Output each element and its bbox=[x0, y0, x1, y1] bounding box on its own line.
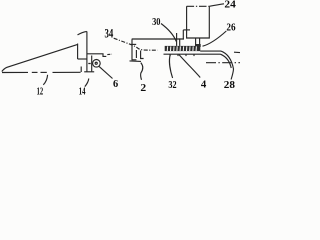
latch finger b bbox=[135, 50, 137, 58]
latch ledge bbox=[131, 43, 136, 45]
conduit outer bend bbox=[221, 51, 234, 79]
centerline end tick bbox=[80, 67, 82, 73]
svg-text:30: 30 bbox=[152, 16, 161, 28]
svg-text:14: 14 bbox=[79, 86, 86, 95]
bracket plate bbox=[91, 56, 93, 72]
guide line under rack bbox=[164, 53, 221, 55]
frame rail bbox=[132, 38, 184, 40]
svg-text:28: 28 bbox=[224, 79, 236, 91]
bracket over roller bbox=[87, 54, 106, 57]
rod fitting vertical bbox=[182, 30, 184, 39]
leader 4 bbox=[179, 55, 200, 78]
conduit inner bend bbox=[221, 54, 232, 68]
roller pivot dash bbox=[88, 63, 92, 65]
svg-text:32: 32 bbox=[168, 79, 177, 91]
box top edge (dash-dot) bbox=[187, 5, 210, 7]
ramp step to post bbox=[78, 58, 87, 60]
leader 2 (s-curve) bbox=[141, 63, 143, 80]
stem right bbox=[199, 38, 201, 46]
svg-text:6: 6 bbox=[113, 78, 119, 90]
svg-text:4: 4 bbox=[201, 78, 207, 90]
leader 32 bbox=[169, 55, 172, 78]
rack bar hatch gaps bbox=[167, 46, 196, 51]
centerline dash 2 bbox=[32, 71, 38, 73]
support post bbox=[86, 31, 88, 72]
svg-text:24: 24 bbox=[224, 0, 236, 11]
phantom line 34 (dash-dot) bbox=[114, 38, 158, 50]
latch finger a bbox=[132, 39, 136, 60]
stem left bbox=[195, 38, 197, 46]
svg-text:34: 34 bbox=[105, 27, 114, 41]
piston rod left line bbox=[176, 33, 178, 46]
leader 26 bbox=[203, 31, 227, 46]
aft centerline (dash-dot) bbox=[206, 62, 240, 64]
leader 6 bbox=[99, 66, 113, 78]
rack bar (dark hatched) bbox=[165, 44, 201, 51]
svg-text:12: 12 bbox=[37, 85, 44, 95]
aft short dash bbox=[234, 51, 240, 53]
guide ticks bbox=[169, 54, 171, 56]
leader 24 bbox=[209, 4, 224, 7]
roller hub bbox=[95, 62, 97, 64]
ramp 12 (curved leading edge) bbox=[2, 44, 78, 71]
post top cap bbox=[78, 31, 87, 35]
post foot bbox=[84, 71, 94, 73]
centerline dash 3 bbox=[41, 71, 47, 73]
rod fitting upper arm bbox=[183, 29, 190, 31]
piston rod right line bbox=[179, 38, 181, 46]
latch finger c bbox=[141, 51, 144, 59]
ramp trailing edge bbox=[77, 44, 79, 60]
leader 30 bbox=[161, 24, 176, 42]
centerline (dash-dot fuselage axis) bbox=[2, 71, 28, 73]
roller 6 (circle) bbox=[93, 60, 101, 68]
bracket dash continuation bbox=[107, 53, 112, 55]
pipe top line bbox=[200, 50, 221, 52]
svg-text:26: 26 bbox=[226, 22, 235, 33]
cluster bottom line bbox=[130, 60, 142, 63]
actuator box 24 bbox=[187, 6, 210, 38]
svg-text:2: 2 bbox=[140, 82, 146, 94]
leader 12 bbox=[43, 75, 47, 85]
centerline dash 4 bbox=[53, 71, 81, 73]
leader 14 bbox=[85, 79, 89, 87]
